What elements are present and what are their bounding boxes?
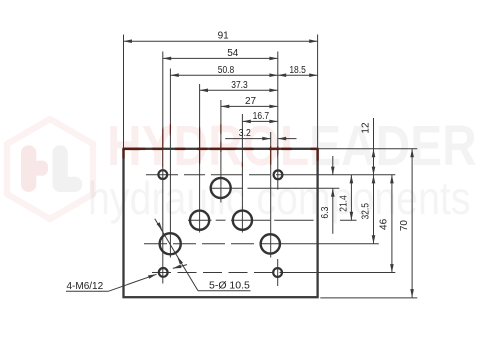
arrow 54 left: [163, 57, 171, 61]
arrow 37.3 left: [200, 89, 208, 93]
wire col centerline T: [169, 69, 171, 258]
wire centerline M6-bottom-right vertical: [277, 259, 279, 286]
wire ext line plate-right-top: [317, 35, 319, 149]
hole T: [160, 233, 181, 254]
wire dim line 70 vertical: [411, 149, 413, 298]
arrow leader 4-M6/12: [148, 273, 157, 279]
arrow 18.5 left: [278, 73, 286, 77]
arrow 6.3 top: [331, 167, 335, 175]
svg-text:50.8: 50.8: [218, 65, 235, 76]
wire dim line 3.2 left leader: [225, 138, 271, 140]
wire row ext plate-bottom right: [320, 297, 417, 299]
hole M6 bottom-right: [273, 268, 282, 277]
arrow 70 bottom: [410, 289, 414, 297]
arrow 6.3 bottom: [331, 188, 335, 196]
svg-text:21.4: 21.4: [338, 195, 349, 212]
watermark logo letter L: [53, 145, 83, 192]
arrow 50.8 left: [170, 73, 178, 77]
wire dim line 32.5 vertical: [373, 175, 375, 244]
hole A: [190, 211, 209, 230]
wire row centerline T-hole5 dashed: [144, 243, 280, 245]
arrow 37.3 right: [269, 89, 277, 93]
svg-text:70: 70: [399, 220, 410, 232]
wire row centerline AB dash: [216, 219, 226, 221]
arrow 46 bottom: [390, 264, 394, 272]
hole M6 top-right: [274, 170, 283, 179]
arrow 91 left: [124, 39, 132, 43]
hole 5: [261, 234, 280, 253]
hole P: [211, 178, 231, 198]
arrow 70 top: [410, 149, 414, 157]
watermark word hydraulic components: [88, 173, 470, 225]
wire row centerline A: [188, 219, 212, 221]
wire row centerline hole5 ext: [280, 243, 379, 245]
arrow 27 right: [269, 105, 277, 109]
wire label underline 4-M6/12: [66, 290, 108, 292]
svg-text:16.7: 16.7: [253, 111, 270, 122]
svg-text:46: 46: [379, 218, 390, 230]
wire leader 5-O10.5 through hole T: [155, 219, 198, 291]
arrow 21.4 top: [350, 175, 354, 183]
arrow 12 bottom: [372, 167, 376, 175]
wire leader 4-M6/12: [108, 274, 156, 291]
plate outline: [124, 149, 318, 297]
arrow 16.7 right: [269, 120, 277, 124]
arrow 54 right: [269, 57, 277, 61]
arrow 3.2 left: [262, 137, 270, 141]
wire col centerline A: [199, 84, 201, 233]
svg-text:4-M6/12: 4-M6/12: [67, 281, 104, 292]
arrow 91 right: [309, 39, 317, 43]
arrow 12 top: [372, 149, 376, 157]
svg-text:hydraulic components: hydraulic components: [88, 173, 470, 225]
svg-text:32.5: 32.5: [360, 203, 371, 220]
watermark word HYDROLEADER: [107, 114, 477, 178]
wire dim line 54: [163, 57, 278, 59]
wire ext line plate-left-top: [123, 35, 125, 149]
svg-text:54: 54: [227, 48, 239, 59]
wire row centerline M6-top dashed: [146, 174, 284, 176]
svg-text:12: 12: [360, 122, 371, 134]
wire col centerline hole5: [270, 132, 272, 258]
wire row centerline AB right piece: [340, 219, 357, 221]
wire dim line 21.4 vertical: [350, 175, 352, 220]
wire row centerline M6-top-right ext: [284, 174, 395, 176]
wire col centerline M6-left: [162, 52, 164, 284]
svg-text:3.2: 3.2: [239, 128, 251, 139]
svg-text:37.3: 37.3: [231, 80, 248, 91]
wire dim line 91: [124, 40, 318, 42]
watermark logo hexagon: [7, 119, 93, 219]
wire row centerline P ext: [210, 187, 243, 189]
wire col centerline P: [220, 100, 222, 203]
arrow 16.7 left: [242, 120, 250, 124]
wire dim line 6.3 upper: [332, 156, 334, 175]
arrow bent to M6: [172, 264, 181, 270]
wire dim line 12 vertical: [373, 118, 375, 175]
arrow 32.5 top: [372, 175, 376, 183]
wire col centerline B: [241, 114, 243, 233]
svg-text:91: 91: [218, 31, 230, 42]
arrow leader 5-O10.5: [176, 255, 183, 264]
hole M6 top-left: [158, 170, 167, 179]
arrow 32.5 bottom: [372, 235, 376, 243]
svg-text:5-Ø 10.5: 5-Ø 10.5: [209, 280, 250, 292]
wire row centerline B ext: [231, 219, 270, 221]
wire dim line 27: [221, 105, 278, 107]
arrow 50.8 right: [269, 73, 277, 77]
wire dim line 16.7: [242, 120, 277, 122]
wire dim line 46 vertical: [391, 175, 393, 273]
wire bent leader to M6 bottom-left: [173, 265, 187, 269]
arrow 27 left: [221, 105, 229, 109]
arrow 18.5 right: [309, 73, 317, 77]
arrow 46 top: [390, 175, 394, 183]
wire col centerline M6-right: [277, 52, 279, 190]
wire row ext plate-top right: [318, 148, 418, 150]
arrow diagonal mid: [157, 222, 164, 231]
watermark logo letter H: [21, 145, 48, 192]
wire dim line 50.8 and 18.5: [170, 74, 317, 76]
hole M6 bottom-left: [159, 268, 168, 277]
wire dim line 6.3 lower: [332, 188, 334, 234]
svg-text:18.5: 18.5: [289, 65, 306, 76]
wire dim line 3.2 right leader: [278, 138, 297, 140]
wire row centerline M6-bottom-right ext: [284, 272, 395, 274]
svg-text:27: 27: [245, 96, 257, 107]
wire label underline 5-O10.5: [198, 290, 251, 292]
svg-text:6.3: 6.3: [320, 206, 331, 218]
hole B: [233, 211, 252, 230]
wire row centerline M6-bottom dashed: [152, 272, 284, 274]
arrow 3.2 right: [278, 137, 286, 141]
arrow 21.4 bottom: [350, 212, 354, 220]
wire dim line 37.3: [200, 89, 278, 91]
